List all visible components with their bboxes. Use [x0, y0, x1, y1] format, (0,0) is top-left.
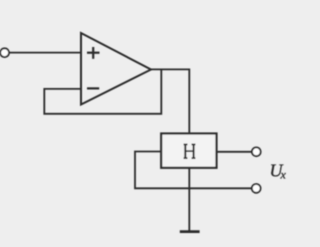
svg-text:х: х — [280, 168, 287, 182]
